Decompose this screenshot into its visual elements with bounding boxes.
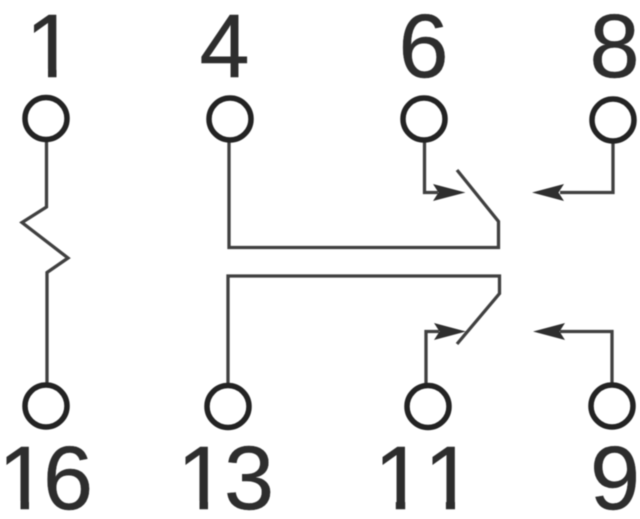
svg-text:3: 3 [224, 429, 274, 519]
svg-text:1: 1 [25, 0, 75, 97]
svg-text:6: 6 [43, 429, 93, 519]
svg-text:4: 4 [199, 0, 249, 97]
svg-text:9: 9 [590, 429, 640, 519]
svg-text:8: 8 [589, 0, 639, 97]
svg-text:6: 6 [398, 0, 448, 97]
